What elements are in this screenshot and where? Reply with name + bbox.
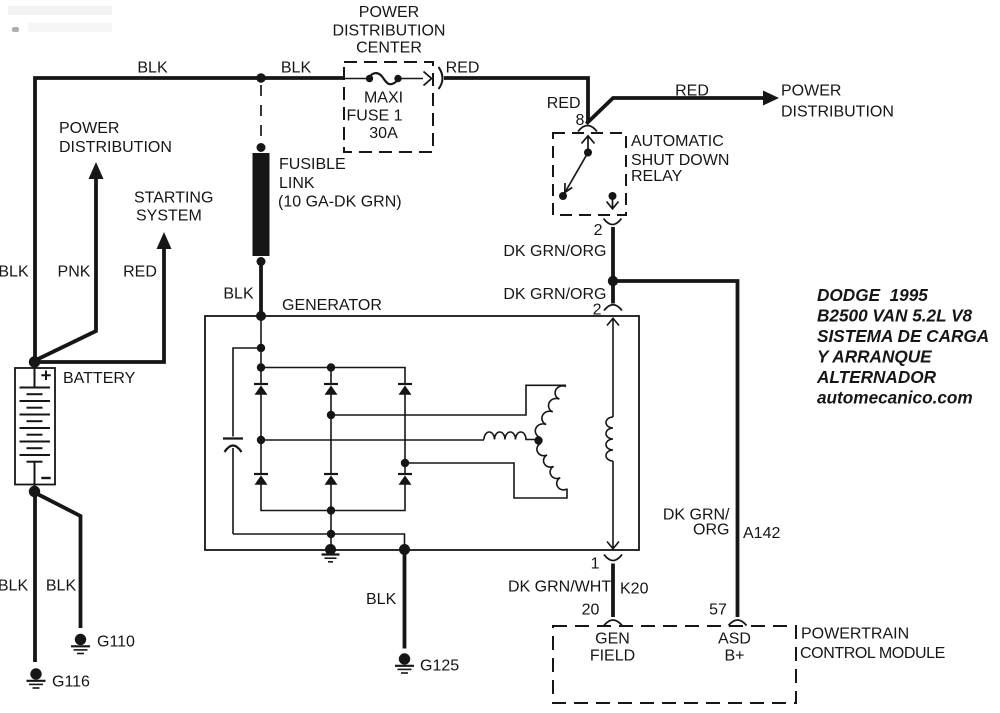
svg-text:ALTERNADOR: ALTERNADOR [816,367,937,387]
svg-text:RED: RED [675,83,709,100]
svg-text:Y ARRANQUE: Y ARRANQUE [817,347,932,367]
wire PNK diagonal to battery [36,177,96,360]
connector cup PCM pin 20 [604,620,622,626]
wire fusible link to generator [259,262,263,314]
wire capacitor branch [233,348,261,437]
svg-text:DISTRIBUTION: DISTRIBUTION [59,139,172,156]
arrowhead POWER DISTRIBUTION right [763,91,779,106]
generator box [205,316,639,550]
connector cup relay pin 2 [604,219,622,225]
capacitor C1 curved plate [225,446,242,453]
svg-text:RELAY: RELAY [631,168,683,185]
svg-text:STARTING: STARTING [134,190,213,207]
rotor field coil [606,417,613,461]
wire relay pin2 down [611,227,615,281]
wire diode stems mid column 3 [404,395,406,475]
arrowhead STARTING SYSTEM (RED) [157,232,172,249]
node relay contact right [609,192,617,200]
svg-text:2: 2 [593,302,602,319]
svg-text:POWERTRAIN: POWERTRAIN [801,626,909,643]
wire diagonal battery to G110 [37,494,81,629]
node DK GRN/ORG junction [608,276,618,286]
svg-text:G110: G110 [97,634,135,651]
wire column 2 to ground [330,485,332,550]
svg-text:30A: 30A [369,125,398,142]
connector cup relay pin 8 [578,126,597,132]
svg-text:B+: B+ [724,648,744,665]
svg-text:POWER: POWER [359,4,419,21]
svg-text:MAXI: MAXI [364,90,403,107]
svg-text:automecanico.com: automecanico.com [817,388,973,408]
svg-text:DISTRIBUTION: DISTRIBUTION [333,23,446,40]
node fuse left [366,75,373,82]
node fusible link bottom [257,257,266,266]
svg-text:DK GRN/WHT: DK GRN/WHT [508,579,611,596]
svg-text:GENERATOR: GENERATOR [282,297,382,314]
powertrain control module dashed box [553,626,796,703]
svg-text:POWER: POWER [781,83,841,100]
diode D1 [254,383,268,385]
wire diagonal to power distribution branch [586,98,764,124]
node battery positive [29,356,40,367]
svg-text:BLK: BLK [46,578,77,595]
svg-text:AUTOMATIC: AUTOMATIC [631,133,724,150]
ground symbol generator case [322,553,340,555]
svg-text:BLK: BLK [137,60,168,77]
node fusible link top [257,143,266,152]
connector cup generator pin 1 [604,555,622,561]
fuse F1 element [369,73,398,84]
battery positive terminal stem [34,362,36,388]
fusible link dashed lead [260,85,262,144]
svg-text:K20: K20 [620,581,649,598]
svg-text:CENTER: CENTER [356,40,422,57]
svg-text:B2500 VAN 5.2L V8: B2500 VAN 5.2L V8 [817,306,973,326]
svg-text:BLK: BLK [281,60,312,77]
svg-text:SISTEMA DE CARGA: SISTEMA DE CARGA [817,326,989,346]
wire K20 generator pin1 to PCM 20 [611,564,615,618]
wire generator main vertical [260,316,262,384]
connector cup PCM pin 57 [729,620,747,626]
ground G125 symbol [395,665,414,667]
svg-text:DK GRN/ORG: DK GRN/ORG [503,243,606,260]
svg-text:RED: RED [123,264,157,281]
stator coil bottom [537,444,567,490]
node stator tap col3 [401,459,409,467]
svg-text:FIELD: FIELD [590,648,635,665]
diode D6 [398,473,412,475]
wire diode stems mid column 2 [330,395,332,475]
svg-text:BATTERY: BATTERY [63,370,136,387]
wire diode stems mid column 1 [260,395,262,475]
battery minus sign [41,477,50,479]
wire battery negative down to G116 [33,493,37,662]
ground G110 symbol [71,645,90,647]
svg-text:57: 57 [709,602,727,619]
node BLK tap junction [256,73,265,82]
stator coil top [535,386,566,437]
svg-text:RED: RED [547,95,581,112]
node top bus col2 [327,363,335,371]
diode D3 [398,383,412,385]
relay up arrow pin 8 [582,136,595,150]
diode D4 [254,473,268,475]
connector C100 paren [439,67,443,89]
fusible link body [253,153,270,256]
node stator star center [534,436,542,444]
wire BLK top-left horizontal and left vertical [35,78,345,360]
wire junction to A142 down to PCM 57 [611,281,738,617]
relay armature arrowhead [565,183,572,193]
node capacitor tap [257,344,265,352]
svg-text:1: 1 [591,556,600,573]
svg-text:SHUT DOWN: SHUT DOWN [631,152,729,169]
svg-text:BLK: BLK [366,591,397,608]
node stator tap col1 [257,436,265,444]
fuse output arrow [424,72,432,86]
arrowhead POWER DISTRIBUTION left (PNK) [89,162,104,179]
fuse F1 lead line [344,78,423,80]
wire rectifier top bus [261,368,405,385]
scan artifact top-left [8,6,112,15]
wire rectifier bottom bus [261,485,405,511]
wire capacitor lower stem [232,448,234,534]
automatic shut down relay dashed box [553,133,626,215]
svg-text:POWER: POWER [59,120,119,137]
stator coil middle [484,432,536,439]
battery negative terminal stem [34,462,36,490]
svg-text:DK GRN/ORG: DK GRN/ORG [503,286,606,303]
diode D5 [324,473,338,475]
svg-text:PNK: PNK [58,264,91,281]
ground G116 dot [30,668,41,679]
node fuse right [394,75,401,82]
wire RED from PDC to corner [444,78,588,122]
svg-text:SYSTEM: SYSTEM [136,208,202,225]
wire diode column 2 upper [330,368,332,385]
svg-text:FUSE 1: FUSE 1 [346,108,402,125]
relay switch armature [566,153,589,192]
svg-text:FUSIBLE: FUSIBLE [279,156,346,173]
svg-text:G125: G125 [420,658,459,675]
svg-text:DODGE 1995: DODGE 1995 [817,285,928,305]
svg-text:8: 8 [576,112,585,129]
ground G116 symbol [27,680,46,682]
rotor field wire bottom arrow [607,461,619,549]
svg-text:DISTRIBUTION: DISTRIBUTION [781,104,894,121]
svg-text:BLK: BLK [0,264,29,281]
svg-text:A142: A142 [743,525,780,542]
node y534 junction [327,530,335,538]
node relay common [584,149,592,157]
svg-text:(10 GA-DK GRN): (10 GA-DK GRN) [278,194,402,211]
battery plates [20,388,51,462]
node relay contact left [559,192,567,200]
svg-text:LINK: LINK [279,175,315,192]
power distribution center dashed box [344,62,433,152]
node generator ground terminal [399,544,410,555]
svg-text:2: 2 [594,222,603,239]
wire stator phase middle [261,439,484,441]
connector cup generator pin 2 [604,305,622,311]
ground G125 dot [399,653,410,664]
svg-text:RED: RED [446,60,480,77]
wire junction down to generator pin2 [611,281,615,304]
capacitor C1 plate [223,437,243,439]
node bottom bus col2 [327,506,335,514]
svg-text:BLK: BLK [223,286,254,303]
node top bus col1 [257,363,265,371]
node generator case ground [325,544,336,555]
svg-text:CONTROL MODULE: CONTROL MODULE [800,645,945,662]
wire stator phase top [331,385,566,415]
battery plus sign [41,371,50,381]
ground G110 dot [75,634,86,645]
relay down arrow pin 2 [607,196,619,209]
node battery negative [29,486,40,497]
rotor field wire top arrow [607,318,619,417]
svg-text:ORG: ORG [693,522,729,539]
wire BLK generator bottom to G125 [403,551,407,649]
svg-text:BLK: BLK [0,578,28,595]
svg-text:G116: G116 [52,674,90,691]
diode D2 [324,383,338,385]
wire RED horizontal battery to starting system [36,247,164,362]
wire stator phase bottom [405,463,567,498]
svg-text:20: 20 [582,602,600,619]
wire y534 ground link [233,534,405,548]
node generator B+ terminal [256,311,266,321]
node stator tap col2 [327,411,335,419]
svg-text:ASD: ASD [718,631,751,648]
svg-text:GEN: GEN [595,631,630,648]
battery box [15,368,55,485]
